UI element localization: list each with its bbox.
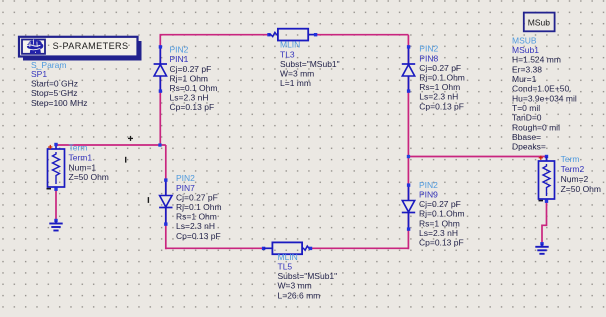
wire [408, 156, 546, 158]
svg-text:Cond=1.0E+50.: Cond=1.0E+50. [512, 84, 572, 94]
svg-text:Rj=0.1 Ohm: Rj=0.1 Ohm [176, 202, 222, 212]
svg-text:Term1: Term1 [69, 152, 93, 162]
svg-text:Cp=0.13 pF: Cp=0.13 pF [176, 231, 221, 241]
transmission line TL3 [267, 29, 317, 41]
svg-text:Cp=0.13 pF: Cp=0.13 pF [170, 102, 215, 112]
diode PIN1 [154, 45, 167, 93]
svg-text:Subst="MSub1": Subst="MSub1" [280, 59, 340, 69]
svg-text:Cj=0.27 pF: Cj=0.27 pF [419, 199, 461, 209]
port Term1 [47, 143, 65, 191]
svg-text:Z=50 Ohm: Z=50 Ohm [69, 172, 109, 182]
svg-text:Ls=2.3 nH: Ls=2.3 nH [419, 92, 458, 102]
svg-text:PIN2: PIN2 [170, 45, 189, 55]
svg-text:Mur=1: Mur=1 [512, 74, 537, 84]
svg-text:Cj=0.27 pF: Cj=0.27 pF [419, 63, 461, 73]
svg-text:MSub: MSub [528, 17, 550, 27]
svg-text:Term2: Term2 [561, 164, 585, 174]
diode PIN9 labels [419, 180, 465, 248]
port Term2 labels [561, 154, 601, 194]
diode PIN8 labels [419, 44, 465, 112]
wire [166, 247, 264, 249]
diode PIN7 labels [176, 173, 222, 241]
node junction left [158, 143, 161, 146]
svg-text:Num=1: Num=1 [69, 163, 97, 173]
node plus mark [128, 136, 133, 141]
substrate MSUB labels [512, 35, 577, 151]
svg-text:Ls=2.3 nH: Ls=2.3 nH [419, 228, 458, 238]
svg-text:TL5: TL5 [278, 262, 293, 272]
svg-text:Rj=0.1 Ohm: Rj=0.1 Ohm [419, 209, 465, 219]
svg-text:TL3: TL3 [280, 49, 295, 59]
svg-text:Cp=0.13 pF: Cp=0.13 pF [419, 238, 464, 248]
diode PIN7 [159, 178, 172, 225]
node I mark 2 [147, 197, 149, 203]
wire [542, 200, 547, 244]
svg-text:Er=3.38: Er=3.38 [512, 64, 542, 74]
svg-text:Term: Term [561, 154, 580, 164]
wire [56, 144, 166, 146]
substrate MSub box [524, 13, 555, 32]
wire [160, 34, 269, 36]
svg-text:T=0 mil: T=0 mil [512, 103, 540, 113]
svg-text:Cj=0.27 pF: Cj=0.27 pF [176, 192, 218, 202]
svg-text:Term: Term [69, 142, 88, 152]
svg-text:Start=0 GHz: Start=0 GHz [31, 79, 78, 89]
transmission line TL3 labels [280, 40, 340, 88]
wire [310, 247, 408, 249]
wire [165, 145, 167, 249]
svg-text:Cp=0.13 pF: Cp=0.13 pF [419, 101, 464, 111]
svg-text:W=3 mm: W=3 mm [280, 69, 314, 79]
svg-text:PIN9: PIN9 [419, 190, 438, 200]
svg-text:Hu=3.9e+034 mil: Hu=3.9e+034 mil [512, 93, 577, 103]
ground (Term2) [535, 242, 548, 254]
svg-text:Z=50 Ohm: Z=50 Ohm [561, 184, 601, 194]
S-parameters labels [31, 60, 87, 108]
svg-text:PIN2: PIN2 [419, 44, 438, 54]
port Term1 labels [69, 142, 109, 182]
svg-text:Bbase=: Bbase= [512, 132, 541, 142]
wire [315, 34, 408, 36]
svg-text:Num=2: Num=2 [561, 174, 589, 184]
svg-text:Rj=0.1 Ohm: Rj=0.1 Ohm [419, 73, 465, 83]
svg-text:Rs=0.1 Ohm: Rs=0.1 Ohm [170, 83, 218, 93]
svg-text:Stop=5 GHz: Stop=5 GHz [31, 88, 78, 98]
svg-text:L=26.6 mm: L=26.6 mm [278, 290, 321, 300]
node I mark 1 [125, 157, 127, 163]
svg-text:Step=100 MHz: Step=100 MHz [31, 98, 87, 108]
node junction right [407, 155, 410, 158]
diode PIN1 labels [170, 45, 218, 113]
S-parameters controller box [19, 37, 142, 61]
svg-text:Ls=2.3 nH: Ls=2.3 nH [176, 221, 215, 231]
transmission line TL5 labels [278, 252, 338, 300]
svg-text:W=3 mm: W=3 mm [278, 281, 312, 291]
port Term2 [539, 155, 555, 203]
svg-text:Subst="MSub1": Subst="MSub1" [278, 271, 338, 281]
svg-text:PIN1: PIN1 [170, 54, 189, 64]
svg-text:MLIN: MLIN [280, 40, 300, 50]
svg-text:MSUB: MSUB [512, 35, 537, 45]
wire [159, 35, 161, 146]
svg-text:Rough=0 mil: Rough=0 mil [512, 122, 560, 132]
svg-text:TanD=0: TanD=0 [512, 113, 542, 123]
svg-text:S-PARAMETERS: S-PARAMETERS [53, 41, 129, 51]
diode PIN9 [402, 183, 415, 230]
svg-text:PIN8: PIN8 [419, 53, 438, 63]
wire [407, 35, 409, 250]
diode PIN8 [402, 45, 415, 93]
svg-text:Ls=2.3 nH: Ls=2.3 nH [170, 93, 209, 103]
svg-text:Rs=1 Ohm: Rs=1 Ohm [176, 212, 217, 222]
svg-text:Rs=1 Ohm: Rs=1 Ohm [419, 82, 460, 92]
svg-text:Cj=0.27 pF: Cj=0.27 pF [170, 64, 212, 74]
svg-text:PIN7: PIN7 [176, 183, 195, 193]
svg-text:Rj=1 Ohm: Rj=1 Ohm [170, 73, 209, 83]
S-parameters controller icon [27, 39, 44, 54]
svg-text:SP1: SP1 [31, 69, 47, 79]
svg-text:Rs=1 Ohm: Rs=1 Ohm [419, 218, 460, 228]
svg-text:MLIN: MLIN [278, 252, 298, 262]
wire [55, 189, 57, 221]
svg-text:MSub1: MSub1 [512, 45, 539, 55]
svg-text:L=1 mm: L=1 mm [280, 78, 311, 88]
svg-text:PIN2: PIN2 [176, 173, 195, 183]
svg-text:PIN2: PIN2 [419, 180, 438, 190]
svg-text:H=1.524 mm: H=1.524 mm [512, 55, 561, 65]
ground (Term1) [49, 219, 62, 231]
svg-text:Dpeaks=: Dpeaks= [512, 142, 546, 152]
transmission line TL5 [262, 242, 312, 254]
